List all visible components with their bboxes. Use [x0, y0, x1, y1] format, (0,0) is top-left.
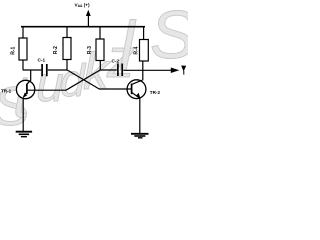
svg-text:R-1: R-1	[10, 47, 16, 55]
svg-text:C-2: C-2	[112, 58, 120, 63]
svg-text:TR-2: TR-2	[150, 90, 161, 95]
svg-text:R-3: R-3	[87, 46, 93, 54]
svg-text:C-1: C-1	[38, 57, 46, 62]
svg-text:TR-1: TR-1	[1, 88, 12, 93]
svg-text:R-4: R-4	[133, 46, 139, 54]
svg-text:VAA (+): VAA (+)	[75, 2, 90, 8]
svg-text:S: S	[150, 0, 188, 73]
svg-text:R-2: R-2	[53, 46, 59, 54]
